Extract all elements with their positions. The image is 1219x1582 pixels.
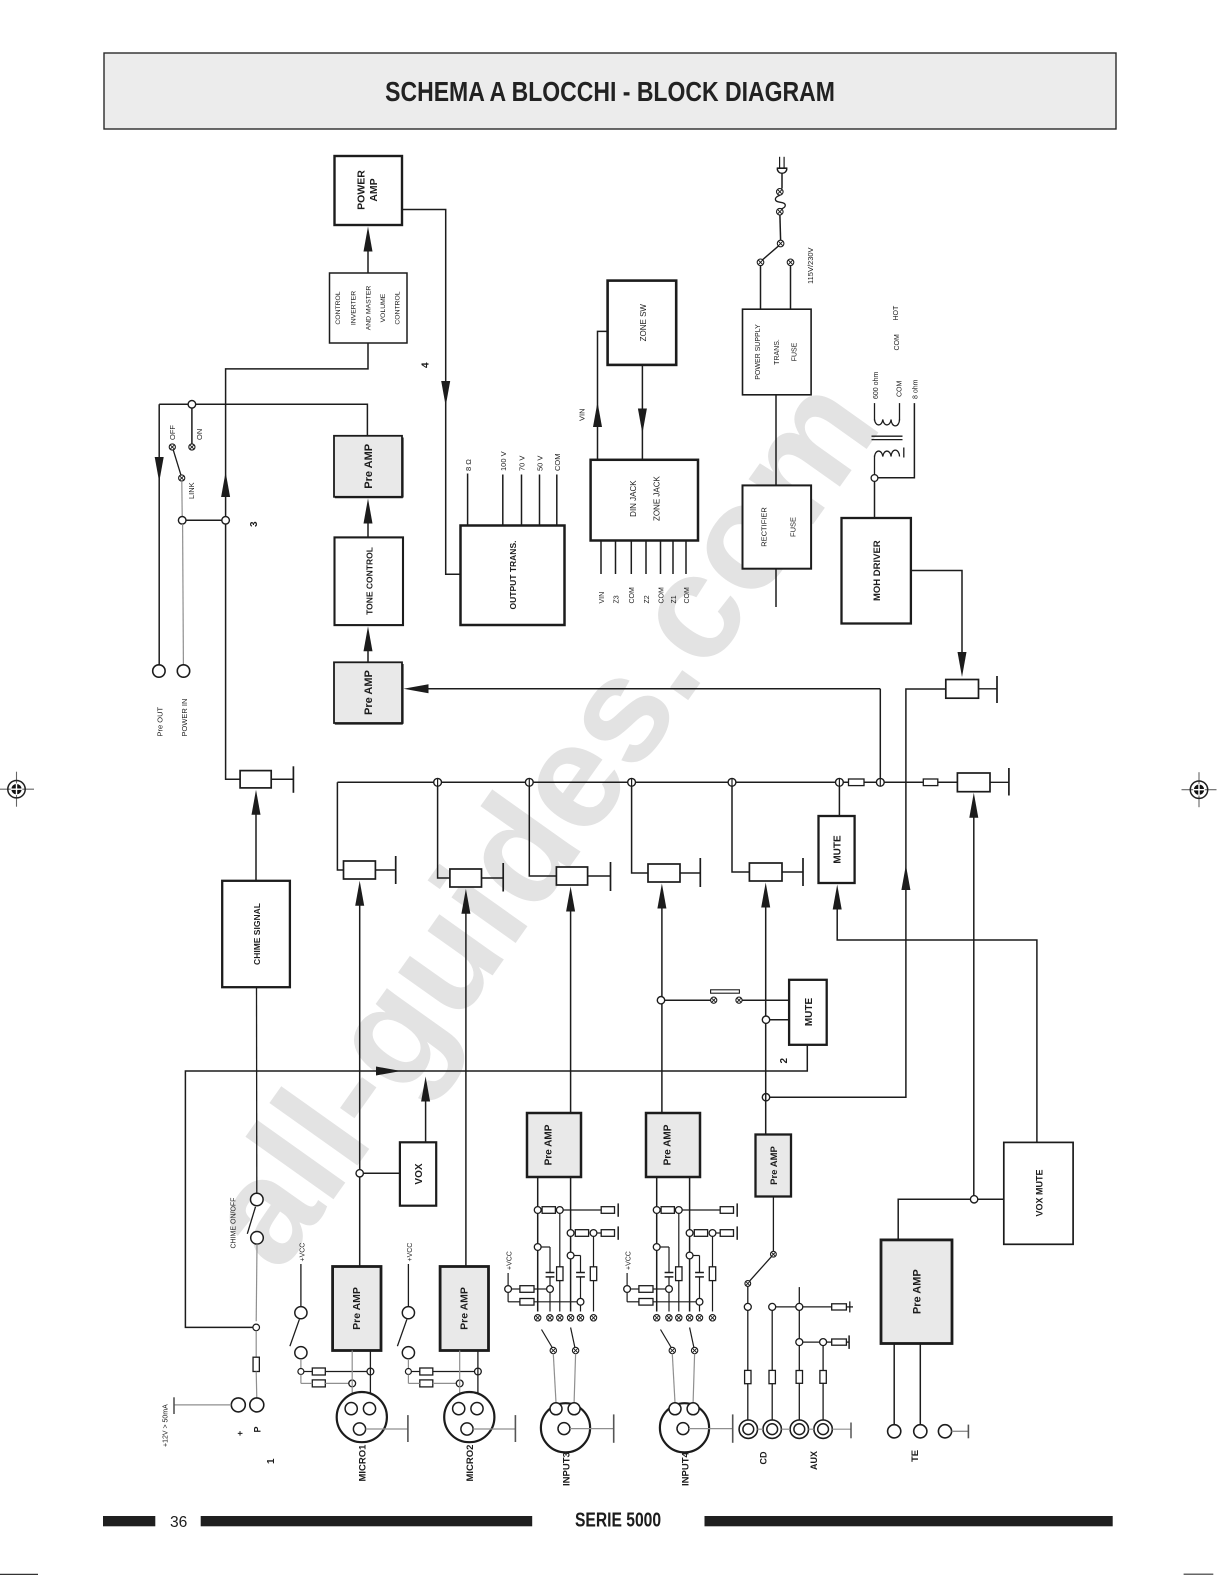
- wire CD1 to jack: [747, 1384, 749, 1420]
- resistor divider2 INPUT4: [709, 1267, 715, 1281]
- wire +VCC INPUT4: [626, 1273, 628, 1286]
- svg-text:Pre OUT: Pre OUT: [155, 706, 164, 736]
- resistor row2 terminator INPUT4: [720, 1230, 733, 1237]
- block CONTROL INVERTER AND MASTER VOLUME CONTROL U2: [330, 273, 408, 343]
- svg-text:CHIME SIGNAL: CHIME SIGNAL: [252, 903, 262, 965]
- ground MICRO1: [366, 1415, 408, 1442]
- resistor to TE pot R11: [923, 779, 938, 786]
- svg-text:VOX MUTE: VOX MUTE: [1034, 1169, 1044, 1216]
- resistor phantom B MICRO1: [312, 1380, 325, 1387]
- svg-text:CONTROL: CONTROL: [335, 291, 342, 324]
- svg-text:INVERTER: INVERTER: [351, 291, 358, 325]
- connector RCA AUX1: [790, 1420, 808, 1438]
- svg-text:8 ohm: 8 ohm: [913, 379, 920, 399]
- junction pair net 3: [178, 517, 229, 525]
- ground CD/AUX: [832, 1423, 851, 1439]
- pin Z2 of DIN JACK: [644, 541, 651, 604]
- arrow into Pre AMP U5: [404, 684, 429, 693]
- terminal plus: [231, 1398, 245, 1412]
- junction CD/AUX riser tap: [762, 1016, 769, 1023]
- junction chime loop: [253, 1324, 260, 1331]
- svg-text:OFF: OFF: [168, 425, 177, 440]
- terminator bar row1 INPUT3: [617, 1203, 619, 1216]
- capacitor C1 INPUT3: [541, 1247, 554, 1286]
- connector RCA CD2: [763, 1420, 781, 1438]
- svg-text:Pre AMP: Pre AMP: [663, 1124, 674, 1165]
- wire bus drop to CD/AUX pot: [732, 786, 749, 872]
- block Pre AMP MICRO2 preamp: [440, 1267, 488, 1351]
- svg-text:+VCC: +VCC: [407, 1243, 414, 1262]
- svg-text:+VCC: +VCC: [506, 1251, 513, 1270]
- svg-text:Pre AMP: Pre AMP: [363, 444, 375, 489]
- wire chime switch down: [255, 1244, 258, 1321]
- svg-text:+VCC: +VCC: [300, 1243, 307, 1262]
- svg-text:SERIE 5000: SERIE 5000: [575, 1507, 661, 1531]
- connector RCA CD1: [739, 1420, 757, 1438]
- arrow up from VOX: [421, 1077, 430, 1102]
- wire AUX2 to jack: [820, 1346, 826, 1420]
- svg-text:CONTROL: CONTROL: [395, 291, 402, 324]
- capacitor C1 INPUT4: [660, 1247, 673, 1286]
- wire CHIME SIGNAL to switch: [256, 987, 258, 1193]
- switch blade 1 INPUT3: [542, 1330, 557, 1354]
- svg-text:VIN: VIN: [599, 592, 606, 604]
- arrow down Pre OUT: [155, 457, 164, 482]
- wire bus drop to INPUT3 pot: [529, 786, 556, 876]
- resistor phantom B MICRO2: [420, 1380, 433, 1387]
- chime switch S5: [247, 1193, 263, 1244]
- wire phantom A MICRO1: [304, 1371, 367, 1373]
- svg-text:P: P: [253, 1426, 263, 1432]
- pin Z1 of DIN JACK: [671, 541, 678, 604]
- svg-text:COM: COM: [658, 587, 665, 604]
- capacitor C2 INPUT4: [693, 1256, 704, 1299]
- svg-text:FUSE: FUSE: [789, 517, 798, 537]
- wire VOX output up: [425, 1101, 427, 1142]
- wire bus drop to MICRO2 pot: [438, 786, 450, 878]
- wire MOH DRIVER to level pot: [911, 571, 962, 653]
- block DIN JACK ZONE JACK J1: [591, 460, 698, 541]
- switch contact ON: [189, 408, 195, 450]
- pin COM of DIN JACK: [684, 541, 691, 604]
- resistor AUX row: [832, 1339, 847, 1345]
- svg-text:50 V: 50 V: [536, 456, 545, 471]
- ground MICRO2: [473, 1415, 515, 1442]
- connector XLR MICRO2: [444, 1392, 494, 1442]
- svg-text:MOH DRIVER: MOH DRIVER: [872, 540, 883, 601]
- wire pin1 MICRO2: [459, 1351, 461, 1403]
- wire tap to mute switch: [665, 999, 711, 1001]
- terminator bar row2 INPUT3: [617, 1226, 619, 1239]
- pot MICRO2 level R2: [450, 863, 503, 892]
- junction bus x839: [836, 778, 844, 786]
- junction bus x631: [628, 778, 636, 786]
- wire CD row right: [803, 1306, 832, 1308]
- junction +VCC INPUT4: [624, 1286, 631, 1293]
- block VOX MUTE U11: [1004, 1142, 1073, 1244]
- wire rectifier output stub: [775, 569, 777, 607]
- terminator bar row2 INPUT4: [736, 1226, 738, 1239]
- resistor on bus R10: [849, 779, 865, 786]
- wire divider1 INPUT3: [559, 1213, 561, 1311]
- wire AUX row: [803, 1341, 820, 1343]
- block MUTE U8: [819, 816, 855, 883]
- resistor row1 terminator INPUT4: [720, 1207, 733, 1214]
- pot CHIME level R8: [240, 766, 293, 793]
- wire CONTROL bottom to master volume node (net 3): [226, 343, 368, 516]
- svg-text:AUX: AUX: [809, 1451, 819, 1470]
- wire Pre OUT feed: [158, 404, 160, 665]
- junction pin1 MICRO2: [456, 1380, 463, 1387]
- svg-text:36: 36: [170, 1514, 187, 1531]
- block POWER SUPPLY TRANS. FUSE T1: [743, 309, 812, 395]
- svg-text:LINK: LINK: [187, 482, 196, 499]
- svg-text:Z3: Z3: [613, 595, 620, 603]
- wire row2 INPUT3: [597, 1232, 601, 1234]
- tap 8 ohm: [464, 459, 473, 526]
- svg-text:8 Ω: 8 Ω: [464, 459, 473, 471]
- resistor vcc row3 INPUT4: [639, 1286, 653, 1293]
- junction bus x880: [876, 778, 884, 786]
- arrow up VIN: [593, 402, 602, 427]
- junction cap2 INPUT4: [686, 1252, 693, 1259]
- wire row1 INPUT4: [682, 1209, 720, 1211]
- junction bus x529: [525, 778, 533, 786]
- svg-text:DIN JACK: DIN JACK: [629, 480, 638, 517]
- wire to XLR pins INPUT3: [553, 1354, 575, 1403]
- svg-text:70 V: 70 V: [518, 456, 527, 471]
- svg-text:+VCC: +VCC: [625, 1251, 632, 1270]
- svg-text:VOLUME: VOLUME: [380, 293, 387, 322]
- block Pre AMP INPUT4 preamp: [646, 1113, 700, 1177]
- wire phantom B MICRO1: [301, 1375, 349, 1384]
- resistor phantom A MICRO2: [420, 1368, 433, 1375]
- arrow down to DIN JACK: [638, 409, 647, 434]
- junction on link bus: [188, 401, 196, 409]
- pot TE level R6: [957, 768, 1009, 796]
- svg-text:Pre AMP: Pre AMP: [351, 1287, 363, 1330]
- capacitor C2 INPUT3: [574, 1256, 585, 1299]
- block OUTPUT TRANS. T2: [461, 526, 565, 626]
- block MOH DRIVER U7: [842, 518, 911, 624]
- footer bar right: [705, 1516, 1113, 1526]
- svg-text:100 V: 100 V: [499, 451, 508, 471]
- junction AUX2: [820, 1339, 827, 1346]
- wire RCA links: [758, 1428, 814, 1430]
- svg-text:HOT: HOT: [893, 305, 900, 321]
- wire CD2 to jack: [771, 1384, 773, 1420]
- terminal P: [250, 1398, 264, 1412]
- resistor divider2 INPUT3: [590, 1267, 596, 1281]
- pin COM of DIN JACK: [658, 541, 665, 604]
- wire TE pin 2: [919, 1344, 921, 1425]
- junction row1 INPUT3: [534, 1207, 541, 1214]
- wire 8 ohm return: [878, 403, 914, 478]
- wire divider2 INPUT3: [593, 1236, 595, 1311]
- switch blade 2 INPUT4: [690, 1328, 698, 1354]
- transformer T3 600ohm: [872, 403, 904, 457]
- resistor CD1: [745, 1370, 751, 1383]
- wire +VCC INPUT3: [507, 1273, 509, 1286]
- wire to XLR pins INPUT4: [672, 1354, 694, 1403]
- wire CD/AUX signal riser: [765, 907, 767, 1135]
- wire chime pot to CHIME SIGNAL: [255, 814, 257, 881]
- tap 100 V: [499, 451, 508, 525]
- mute switch S3: [711, 990, 743, 1004]
- svg-text:MICRO2: MICRO2: [465, 1445, 476, 1482]
- wire fuse to mains switch: [779, 215, 782, 240]
- wire row1 INPUT3: [563, 1209, 601, 1211]
- svg-text:COM: COM: [553, 454, 562, 472]
- resistor row1 terminator INPUT3: [601, 1207, 614, 1214]
- svg-text:3: 3: [249, 521, 260, 527]
- pin VIN of DIN JACK: [599, 541, 606, 604]
- tap COM: [553, 454, 562, 526]
- pot CD/AUX level R5: [749, 858, 803, 886]
- wire AUX1 drop: [798, 1310, 800, 1338]
- svg-text:1: 1: [266, 1458, 277, 1464]
- wire link bus y404: [159, 404, 367, 436]
- svg-text:Pre AMP: Pre AMP: [544, 1124, 555, 1165]
- arrow into MICRO1 pot: [355, 881, 364, 906]
- junction cap2 INPUT3: [567, 1252, 574, 1259]
- junction phantom MICRO1: [298, 1369, 304, 1375]
- fuse F1 on mains: [775, 189, 785, 216]
- wire mix bus to Pre AMP U5 input: [427, 688, 880, 690]
- resistor vcc row4 INPUT3: [520, 1299, 534, 1306]
- svg-text:POWER IN: POWER IN: [180, 699, 189, 737]
- pot MOH level R7: [946, 676, 997, 703]
- wire MICRO2 signal riser: [465, 913, 467, 1267]
- wire TE pin 1: [893, 1344, 895, 1425]
- junction TE riser: [970, 1196, 977, 1203]
- block ZONE SW S2: [608, 281, 677, 365]
- wire INPUT4 signal riser: [661, 908, 663, 1113]
- ground TE: [952, 1425, 969, 1439]
- wire CD2 drop: [771, 1310, 773, 1370]
- wire junction to MOH DRIVER: [874, 481, 876, 518]
- wire INPUT3 signal riser: [570, 911, 572, 1113]
- junction stub CD/AUX: [796, 1287, 803, 1310]
- svg-text:COM: COM: [684, 587, 691, 604]
- arrow into TE pot: [969, 793, 978, 818]
- junction +VCC INPUT3: [505, 1286, 512, 1293]
- resistor CD2: [769, 1370, 775, 1383]
- wire tap to MUTE2: [770, 1019, 789, 1021]
- wire POWER AMP output to OUTPUT TRANS (net 4): [402, 210, 461, 575]
- bar +12V: [173, 1397, 175, 1414]
- wire CD1 drop: [747, 1310, 749, 1370]
- wire MUTE2 output loop: [185, 1045, 807, 1328]
- tap 50 V: [536, 456, 545, 526]
- svg-text:VIN: VIN: [578, 408, 587, 421]
- junction phantom MICRO2: [405, 1369, 411, 1375]
- block Pre AMP TE U12: [881, 1240, 952, 1344]
- resistor CD row: [832, 1304, 847, 1310]
- junction bus x732: [728, 778, 736, 786]
- svg-text:4: 4: [420, 362, 431, 368]
- wire blade to junction: [181, 481, 183, 516]
- page mark bottom right: [1184, 1573, 1214, 1575]
- wire VOX MUTE left to TE preamp: [898, 1199, 1004, 1240]
- wire junction to VOX input: [363, 1172, 400, 1174]
- svg-text:POWER: POWER: [356, 170, 368, 210]
- svg-text:OUTPUT TRANS.: OUTPUT TRANS.: [508, 541, 518, 610]
- junction row3 INPUT3: [547, 1286, 554, 1293]
- arrow up on MOH mix wire: [901, 865, 910, 890]
- wire pin lines INPUT3: [538, 1177, 571, 1312]
- resistor divider1 INPUT4: [676, 1267, 682, 1281]
- wire AUX row right: [827, 1341, 832, 1343]
- wire mix bus drop: [879, 689, 881, 779]
- wire to POWER IN: [182, 524, 185, 665]
- junction row4 INPUT4: [696, 1298, 703, 1305]
- svg-text:POWER SUPPLY: POWER SUPPLY: [755, 324, 762, 380]
- arrow right on mute loop: [376, 1067, 401, 1076]
- switch contact OFF: [169, 444, 175, 450]
- page mark bottom left: [0, 1573, 38, 1575]
- junction transformer to MOH: [871, 475, 878, 482]
- junction mix node on CD/AUX riser: [762, 1094, 769, 1101]
- mains switch S1: [757, 240, 794, 265]
- footer bar middle: [201, 1516, 533, 1526]
- wire row3 drop INPUT3: [549, 1292, 551, 1311]
- junction row3 INPUT4: [666, 1286, 673, 1293]
- svg-text:Z1: Z1: [671, 595, 678, 603]
- wire ZONE SW to DIN JACK: [641, 365, 643, 460]
- resistor vcc row4 INPUT4: [639, 1299, 653, 1306]
- block VOX U10: [400, 1142, 436, 1205]
- block RECTIFIER FUSE U6: [743, 485, 812, 568]
- wire pin2 MICRO2: [477, 1351, 479, 1403]
- arrow into chime pot: [252, 790, 261, 815]
- arrow into MICRO2 pot: [461, 889, 470, 914]
- svg-text:AMP: AMP: [368, 178, 380, 201]
- svg-text:SCHEMA A BLOCCHI - BLOCK DIAGR: SCHEMA A BLOCCHI - BLOCK DIAGRAM: [385, 77, 835, 108]
- resistor phantom A MICRO1: [312, 1368, 325, 1375]
- wire switch to transformer: [761, 266, 791, 310]
- wire divider2 INPUT4: [712, 1236, 714, 1311]
- wire chime to terminal: [255, 1331, 257, 1358]
- block Pre AMP MICRO1 preamp: [333, 1267, 381, 1351]
- selector switch S4: [745, 1251, 776, 1286]
- arrow down into MOH pot: [958, 652, 967, 677]
- svg-text:Pre AMP: Pre AMP: [769, 1145, 780, 1184]
- wire pin2 MICRO1: [369, 1351, 371, 1403]
- resistor divider1 INPUT3: [557, 1267, 563, 1281]
- wire row4 INPUT4: [627, 1292, 696, 1301]
- terminal Pre OUT: [153, 665, 165, 677]
- phantom switch MICRO1: [290, 1264, 307, 1368]
- junction pin2 MICRO1: [367, 1368, 374, 1375]
- junction row1b INPUT4: [675, 1207, 682, 1214]
- junction INPUT4 riser tap: [657, 997, 664, 1004]
- wire primary to junction: [874, 456, 876, 475]
- wire VIN to ZONE SW: [598, 331, 608, 459]
- svg-text:Pre AMP: Pre AMP: [459, 1287, 471, 1330]
- svg-text:FUSE: FUSE: [792, 342, 799, 361]
- svg-text:VOX: VOX: [414, 1163, 425, 1184]
- arrow up on net 3: [221, 472, 230, 497]
- block MUTE U9: [789, 980, 827, 1045]
- svg-text:INPUT4: INPUT4: [681, 1452, 692, 1487]
- wire preamp to selector: [772, 1197, 774, 1252]
- wire TE signal riser: [973, 817, 975, 1199]
- terminal TE tip: [888, 1425, 901, 1438]
- block Pre AMP INPUT3 preamp: [527, 1113, 581, 1177]
- junction row2b INPUT4: [709, 1230, 716, 1237]
- pot MICRO1 level R1: [344, 856, 396, 884]
- block CHIME SIGNAL U14: [222, 881, 290, 987]
- arrow into INPUT4 pot: [657, 884, 666, 909]
- wire mute switch to MUTE2: [742, 999, 789, 1001]
- wire row2 INPUT4: [716, 1232, 720, 1234]
- svg-text:MICRO1: MICRO1: [357, 1444, 368, 1482]
- phantom switch MICRO2: [397, 1264, 414, 1368]
- arrow TONE CONTROL to Pre AMP U3: [364, 499, 373, 538]
- junction pin1 MICRO1: [349, 1380, 356, 1387]
- wire net3 to chime pot: [226, 524, 241, 779]
- ground INPUT3: [570, 1414, 614, 1442]
- svg-text:Z2: Z2: [644, 595, 651, 603]
- pot INPUT3 level R3: [556, 862, 610, 891]
- AC plug P1: [777, 157, 788, 189]
- block POWER AMP U1: [335, 156, 403, 225]
- wire +12V feed: [174, 1404, 231, 1406]
- wire row3 INPUT3: [512, 1288, 547, 1290]
- svg-text:115V/230V: 115V/230V: [806, 247, 815, 284]
- pin COM of DIN JACK: [629, 541, 636, 604]
- svg-text:AND MASTER: AND MASTER: [366, 286, 373, 331]
- wire bus corner to MICRO1 pot: [337, 782, 343, 870]
- wire trans to rectifier: [775, 395, 777, 486]
- wire row4 drop INPUT4: [699, 1305, 701, 1311]
- block TONE CONTROL U4: [335, 537, 404, 625]
- wire pin1 MICRO1: [351, 1351, 353, 1403]
- junction row1 INPUT4: [653, 1207, 660, 1214]
- junction AUX1: [796, 1339, 803, 1346]
- title block SCHEMA A BLOCCHI - BLOCK DIAGRAM: [104, 53, 1116, 129]
- junction row2b INPUT3: [590, 1230, 597, 1237]
- svg-text:COM: COM: [894, 334, 901, 351]
- svg-text:TE: TE: [910, 1450, 921, 1462]
- junction bus x437: [434, 778, 442, 786]
- wire CD row: [776, 1306, 796, 1308]
- connector XLR MICRO1: [337, 1392, 387, 1442]
- terminal row INPUT4: [654, 1315, 716, 1321]
- switch blade 2 INPUT3: [571, 1328, 579, 1354]
- junction cap1 INPUT3: [534, 1244, 541, 1251]
- svg-text:COM: COM: [629, 587, 636, 604]
- wire row3 drop INPUT4: [668, 1292, 670, 1311]
- wire phantom B MICRO2: [408, 1375, 456, 1384]
- wire pin lines INPUT4: [657, 1177, 690, 1312]
- terminal TE ring: [914, 1425, 927, 1438]
- resistor row1 INPUT3: [542, 1207, 555, 1214]
- arrow into INPUT3 pot: [566, 887, 575, 912]
- wire phantom A MICRO2: [411, 1371, 474, 1373]
- svg-text:ZONE JACK: ZONE JACK: [652, 475, 661, 521]
- wire selector to CD1: [747, 1286, 749, 1303]
- wire AUX1 to jack: [796, 1346, 802, 1420]
- terminator CD row: [846, 1301, 853, 1312]
- svg-text:TONE CONTROL: TONE CONTROL: [365, 547, 375, 615]
- svg-text:CHIME ON/OFF: CHIME ON/OFF: [231, 1198, 238, 1249]
- junction row2 INPUT4: [686, 1230, 693, 1237]
- svg-text:RECTIFIER: RECTIFIER: [760, 507, 769, 547]
- resistor chime R9: [253, 1357, 259, 1371]
- svg-text:COM: COM: [897, 381, 904, 398]
